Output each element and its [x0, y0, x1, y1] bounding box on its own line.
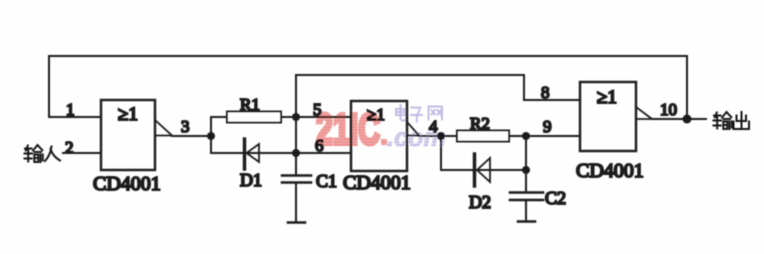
- svg-text:≥1: ≥1: [597, 87, 617, 108]
- svg-text:R2: R2: [470, 114, 490, 133]
- capacitor C1: [282, 176, 311, 183]
- op-amp gate U2 CD4001: [351, 101, 419, 171]
- svg-text:21IC: 21IC: [316, 105, 380, 154]
- node junction pin5: [292, 113, 300, 121]
- svg-text:1: 1: [66, 100, 75, 119]
- wire: pin 6 wire: [296, 152, 351, 154]
- svg-text:C1: C1: [316, 171, 337, 191]
- wire: pin 9 wire into U3: [526, 135, 580, 137]
- resistor R1: [227, 112, 281, 123]
- svg-text:D1: D1: [240, 170, 262, 190]
- wire: pin 8 wire: [524, 99, 580, 101]
- svg-text:3: 3: [181, 117, 190, 136]
- wire: right branch vertical: [440, 136, 442, 170]
- svg-text:R1: R1: [240, 95, 260, 114]
- svg-text:CD4001: CD4001: [576, 160, 644, 182]
- diode D2: [475, 154, 491, 186]
- wire: pin 10 output wire: [652, 118, 706, 120]
- wire: C1 to ground: [295, 183, 297, 222]
- wire: D2 bottom branch: [441, 169, 526, 171]
- wire: D1 bottom branch: [211, 152, 296, 154]
- wire: node5/node6/C1 vertical: [295, 75, 297, 175]
- wire: node9 to C2 vertical: [525, 136, 527, 192]
- wire: outer feedback right vertical: [686, 56, 688, 119]
- diode D1: [245, 139, 260, 169]
- wire: pin 2 input wire: [63, 152, 101, 154]
- svg-text:≥1: ≥1: [118, 104, 138, 125]
- node junction pin3: [207, 132, 215, 140]
- wire: pin 3 output wire: [172, 135, 211, 137]
- op-amp gate U1 CD4001: [101, 100, 172, 170]
- wire: R2 to pin 9: [509, 135, 580, 137]
- label 输出 (output): [714, 112, 750, 129]
- wire: pin 5 wire: [296, 116, 351, 118]
- label 输入 (input): [25, 145, 61, 162]
- node junction output: [683, 115, 692, 124]
- node junction D2-C2: [522, 166, 530, 174]
- ground (C2): [518, 220, 535, 223]
- wire: R1 top branch: [211, 116, 296, 118]
- wire: outer feedback top rail: [49, 55, 687, 57]
- node junction pin4: [437, 132, 445, 140]
- wire: inner feedback right vertical: [523, 75, 525, 100]
- wire: outer feedback left vertical: [48, 56, 50, 117]
- wire: inner feedback rail node5 to pin8: [296, 74, 524, 76]
- node junction pin9: [522, 132, 530, 140]
- svg-text:10: 10: [660, 100, 677, 119]
- node junction pin6: [292, 149, 300, 157]
- wire: pin 1 input wire: [49, 116, 101, 118]
- svg-text:.com: .com: [387, 122, 446, 152]
- wire: left branch vertical: [210, 117, 212, 153]
- ground (C1): [288, 221, 305, 224]
- resistor R2: [457, 131, 509, 142]
- svg-text:C2: C2: [545, 188, 566, 208]
- svg-text:CD4001: CD4001: [93, 173, 161, 195]
- watermark 电子网: [396, 105, 442, 122]
- wire: pin 4 output wire: [419, 135, 457, 137]
- svg-text:D2: D2: [469, 192, 491, 212]
- op-amp gate U3 CD4001: [580, 82, 652, 151]
- svg-text:2: 2: [65, 138, 74, 157]
- svg-text:CD4001: CD4001: [343, 172, 411, 194]
- watermark 21IC: [316, 105, 387, 154]
- svg-text:8: 8: [541, 83, 550, 102]
- capacitor C2: [510, 193, 543, 201]
- svg-text:9: 9: [543, 117, 552, 136]
- wire: C2 to ground: [525, 201, 527, 221]
